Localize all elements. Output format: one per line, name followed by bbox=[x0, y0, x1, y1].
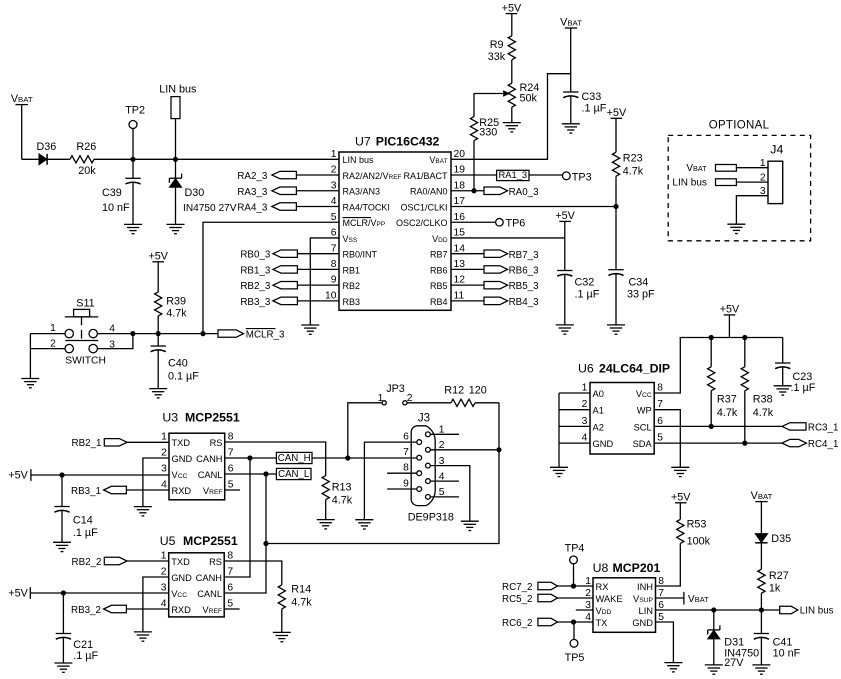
svg-text:0.1 µF: 0.1 µF bbox=[168, 371, 199, 383]
net RB6_3 flag bbox=[451, 266, 539, 277]
svg-text:1: 1 bbox=[760, 158, 766, 169]
power +5V bbox=[720, 304, 740, 338]
svg-text:3: 3 bbox=[161, 583, 167, 594]
svg-text:RC6_2: RC6_2 bbox=[502, 618, 533, 629]
net LIN bus flag bbox=[780, 606, 834, 617]
svg-text:100k: 100k bbox=[687, 536, 711, 548]
svg-text:19: 19 bbox=[454, 165, 466, 176]
wire bbox=[511, 107, 513, 122]
zener diode D30 bbox=[169, 159, 236, 224]
net RC6_2 flag bbox=[502, 618, 593, 629]
node bbox=[156, 332, 160, 336]
resistor R23 bbox=[612, 152, 643, 206]
svg-text:A2: A2 bbox=[593, 422, 604, 432]
svg-text:D36: D36 bbox=[36, 141, 56, 153]
wire U6 SDA bbox=[654, 442, 782, 444]
ground bbox=[671, 467, 689, 476]
ground bbox=[461, 521, 479, 530]
svg-text:RB3_2: RB3_2 bbox=[71, 605, 101, 616]
net RA2_3 flag bbox=[237, 171, 339, 182]
test point TP4 bbox=[565, 542, 585, 586]
svg-text:1: 1 bbox=[331, 149, 337, 160]
resistor R13 bbox=[322, 476, 353, 520]
IC U6 label bbox=[578, 361, 670, 375]
wire U6 Vcc bbox=[654, 338, 680, 394]
power VBAT bbox=[560, 17, 582, 92]
svg-text:R53: R53 bbox=[687, 519, 707, 531]
ground bbox=[134, 507, 152, 516]
svg-text:+5V: +5V bbox=[502, 2, 522, 14]
svg-text:RXD: RXD bbox=[171, 605, 191, 615]
net MCLR_3 flag bbox=[218, 329, 285, 341]
wire J3 pin2 bbox=[430, 449, 499, 451]
svg-text:RA4_3: RA4_3 bbox=[237, 202, 268, 213]
svg-text:R26: R26 bbox=[76, 141, 96, 153]
svg-text:RA2_3: RA2_3 bbox=[237, 171, 268, 182]
svg-text:U6: U6 bbox=[578, 361, 594, 375]
svg-text:MCLR_3: MCLR_3 bbox=[246, 330, 285, 341]
capacitor C34 bbox=[608, 206, 655, 324]
resistor R26 bbox=[70, 141, 96, 177]
svg-text:TP2: TP2 bbox=[125, 105, 145, 117]
svg-text:6: 6 bbox=[403, 432, 409, 443]
connector J4 body bbox=[768, 161, 783, 203]
svg-text:4: 4 bbox=[109, 323, 115, 334]
wire J3 pin3 bbox=[430, 466, 470, 522]
svg-text:1k: 1k bbox=[769, 583, 781, 595]
svg-text:4: 4 bbox=[331, 196, 337, 207]
svg-text:RB1_3: RB1_3 bbox=[240, 265, 271, 276]
IC U6 24LC64_DIP box bbox=[590, 383, 654, 455]
svg-text:120: 120 bbox=[469, 385, 487, 397]
svg-text:330: 330 bbox=[479, 126, 497, 138]
potentiometer R24 bbox=[508, 82, 539, 107]
wire bbox=[558, 393, 560, 467]
resistor R27 bbox=[758, 569, 789, 610]
wire U3 RS bbox=[225, 442, 326, 476]
IC U5 label bbox=[160, 534, 238, 548]
svg-text:3: 3 bbox=[582, 416, 588, 427]
connector J4 label bbox=[770, 143, 783, 157]
svg-text:JP3: JP3 bbox=[386, 383, 405, 395]
svg-text:10 nF: 10 nF bbox=[773, 647, 801, 659]
wire U6 A2 bbox=[559, 425, 590, 427]
ground bbox=[503, 123, 521, 132]
ground bbox=[21, 379, 39, 388]
net RA3_3 flag bbox=[237, 187, 339, 198]
net CAN_H box bbox=[276, 452, 312, 464]
wire J3 pin4 bbox=[430, 480, 459, 482]
svg-text:D35: D35 bbox=[771, 533, 791, 545]
svg-text:J4: J4 bbox=[770, 143, 783, 157]
resistor R39 bbox=[155, 292, 188, 334]
svg-text:.1 µF: .1 µF bbox=[73, 527, 98, 539]
wire switch pin1 bbox=[30, 333, 65, 335]
node bbox=[571, 620, 575, 624]
node LIN-bus junction bbox=[173, 157, 177, 161]
svg-text:7: 7 bbox=[331, 243, 337, 254]
svg-text:7: 7 bbox=[657, 399, 663, 410]
power +5V bbox=[8, 469, 169, 481]
svg-text:8: 8 bbox=[228, 432, 234, 443]
node bbox=[712, 608, 716, 612]
wire J3 pin9 bbox=[387, 488, 417, 490]
svg-text:D30: D30 bbox=[185, 187, 205, 199]
svg-text:14: 14 bbox=[454, 243, 466, 254]
IC U6 pin labels bbox=[582, 382, 664, 449]
power +5V bbox=[671, 492, 691, 520]
svg-text:+5V: +5V bbox=[8, 469, 28, 481]
svg-text:C32: C32 bbox=[575, 277, 595, 289]
svg-text:IN4750 27V: IN4750 27V bbox=[183, 203, 237, 214]
svg-text:1: 1 bbox=[50, 323, 56, 334]
IC U7 pin labels bbox=[325, 149, 465, 307]
net CAN_L box bbox=[276, 468, 311, 480]
svg-text:.1 µF: .1 µF bbox=[582, 103, 607, 115]
wire bbox=[94, 158, 339, 160]
node bbox=[60, 473, 64, 477]
svg-text:.1 µF: .1 µF bbox=[73, 650, 98, 662]
optional dashed box bbox=[668, 135, 810, 240]
op-amp U7 label bbox=[355, 134, 440, 148]
resistor R12 bbox=[444, 385, 486, 407]
svg-text:TP3: TP3 bbox=[572, 171, 592, 183]
svg-text:4: 4 bbox=[161, 480, 167, 491]
svg-text:2: 2 bbox=[161, 448, 167, 459]
ground bbox=[273, 632, 291, 641]
svg-text:VBAT: VBAT bbox=[686, 163, 707, 174]
svg-text:TXD: TXD bbox=[171, 557, 190, 567]
svg-text:LIN bus: LIN bus bbox=[800, 606, 834, 617]
svg-text:R13: R13 bbox=[332, 481, 352, 493]
wire U3 GND bbox=[143, 458, 169, 507]
IC U3 label bbox=[162, 410, 239, 424]
wire pin15 bbox=[451, 237, 565, 239]
ground bbox=[556, 325, 574, 334]
svg-text:4.7k: 4.7k bbox=[717, 407, 738, 419]
svg-text:1: 1 bbox=[161, 432, 167, 443]
diode D36 bbox=[36, 141, 56, 165]
svg-text:2: 2 bbox=[161, 567, 167, 578]
capacitor C40 bbox=[151, 334, 200, 389]
net RB3_2 flag bbox=[71, 605, 169, 616]
net VBAT box bbox=[686, 163, 736, 174]
svg-text:50k: 50k bbox=[520, 93, 538, 105]
svg-text:4: 4 bbox=[582, 433, 588, 444]
svg-text:5: 5 bbox=[657, 433, 663, 444]
diode D35 bbox=[755, 533, 791, 545]
svg-text:RA3_3: RA3_3 bbox=[237, 187, 268, 198]
svg-text:R27: R27 bbox=[769, 570, 789, 582]
svg-text:+5V: +5V bbox=[720, 304, 740, 316]
svg-text:LIN bus: LIN bus bbox=[343, 155, 375, 165]
svg-text:RXD: RXD bbox=[172, 486, 192, 496]
node TP2 junction bbox=[131, 157, 135, 161]
wire JP3 pin1 bbox=[348, 403, 382, 458]
svg-text:RB4_3: RB4_3 bbox=[509, 297, 540, 308]
svg-text:RB2: RB2 bbox=[343, 281, 361, 291]
svg-text:CANL: CANL bbox=[197, 589, 222, 599]
svg-text:RB2_1: RB2_1 bbox=[72, 438, 102, 449]
wire Vss bbox=[310, 238, 339, 325]
resistor R37 bbox=[708, 338, 738, 427]
svg-text:RA0/AN0: RA0/AN0 bbox=[410, 187, 448, 197]
svg-text:15: 15 bbox=[454, 228, 466, 239]
node bbox=[709, 335, 713, 339]
wire U8 LIN bbox=[656, 609, 780, 611]
svg-text:WAKE: WAKE bbox=[596, 594, 623, 604]
stub U8 VDD bbox=[576, 609, 593, 611]
svg-text:RB3_3: RB3_3 bbox=[240, 297, 271, 308]
ground bbox=[562, 124, 580, 133]
svg-text:CAN_L: CAN_L bbox=[278, 469, 310, 480]
svg-text:SWITCH: SWITCH bbox=[65, 356, 106, 367]
svg-text:RA0_3: RA0_3 bbox=[509, 187, 540, 198]
svg-text:20k: 20k bbox=[78, 165, 96, 177]
svg-text:13: 13 bbox=[454, 259, 466, 270]
wire pin20 VBAT bbox=[451, 74, 571, 160]
svg-text:U8: U8 bbox=[593, 561, 609, 575]
svg-text:RB7_3: RB7_3 bbox=[509, 250, 540, 261]
svg-text:RB2_2: RB2_2 bbox=[72, 557, 102, 568]
svg-text:R37: R37 bbox=[717, 394, 737, 406]
resistor R53 bbox=[677, 519, 711, 548]
IC U8 pin labels bbox=[585, 576, 664, 628]
node bbox=[131, 332, 135, 336]
wire bbox=[29, 334, 31, 379]
wire MCLR bbox=[203, 222, 339, 333]
wire U5 CANH link bbox=[224, 458, 250, 577]
svg-text:MCP201: MCP201 bbox=[613, 561, 661, 575]
connector J3 pins bbox=[403, 425, 445, 500]
svg-text:OSC1/CLKI: OSC1/CLKI bbox=[400, 202, 447, 212]
wire JP3 pin2 bbox=[407, 402, 451, 404]
ground bbox=[727, 224, 745, 233]
svg-text:8: 8 bbox=[331, 259, 337, 270]
node bbox=[472, 189, 476, 193]
wire U5 GND bbox=[143, 577, 169, 632]
zener diode D31 bbox=[708, 610, 759, 669]
power +5V bbox=[555, 210, 575, 238]
svg-text:VBAT: VBAT bbox=[11, 93, 33, 105]
IC U3 pin labels bbox=[161, 432, 234, 496]
svg-text:33 pF: 33 pF bbox=[627, 289, 655, 301]
connector J3 label bbox=[418, 413, 430, 425]
wire switch pin2 bbox=[30, 348, 65, 350]
connector J3 body bbox=[411, 426, 435, 506]
wire J3 pin6 bbox=[364, 442, 417, 520]
resistor R25 bbox=[470, 94, 499, 191]
svg-text:RB5_3: RB5_3 bbox=[509, 281, 540, 292]
power VBAT bbox=[751, 490, 773, 533]
capacitor C32 bbox=[557, 238, 600, 325]
wire +5V rail bbox=[680, 337, 783, 339]
ground bbox=[149, 389, 167, 398]
svg-text:+5V: +5V bbox=[555, 210, 575, 222]
wire U5 CANL link bbox=[224, 474, 266, 593]
svg-text:4.7k: 4.7k bbox=[753, 407, 774, 419]
wire U3 CANL bbox=[225, 473, 277, 475]
net RA1_3 box bbox=[451, 169, 529, 181]
ground bbox=[664, 663, 682, 672]
svg-text:R39: R39 bbox=[166, 295, 186, 307]
svg-text:MCP2551: MCP2551 bbox=[183, 534, 238, 548]
svg-text:27V: 27V bbox=[724, 657, 744, 669]
svg-text:9: 9 bbox=[331, 275, 337, 286]
wire CANH to J3 bbox=[312, 457, 417, 459]
power +5V bbox=[148, 251, 168, 292]
net RB5_3 flag bbox=[451, 281, 539, 292]
ground bbox=[54, 663, 72, 672]
svg-text:RA1/BACT: RA1/BACT bbox=[403, 171, 448, 181]
wire bbox=[760, 543, 762, 569]
stub U5 VREF bbox=[224, 608, 239, 610]
wire pin18 bbox=[451, 190, 484, 192]
svg-text:+5V: +5V bbox=[607, 107, 627, 119]
wire J4 pin1 bbox=[736, 158, 768, 169]
svg-text:6: 6 bbox=[227, 583, 233, 594]
test point TP5 bbox=[565, 622, 585, 664]
wire U5 RS bbox=[224, 561, 282, 585]
svg-text:RB6: RB6 bbox=[430, 265, 448, 275]
svg-text:INH: INH bbox=[637, 582, 653, 592]
resistor R38 bbox=[741, 338, 774, 444]
node bbox=[248, 456, 252, 460]
svg-text:CANH: CANH bbox=[196, 573, 222, 583]
svg-text:C34: C34 bbox=[629, 277, 649, 289]
svg-text:S11: S11 bbox=[76, 298, 94, 310]
svg-text:RB4: RB4 bbox=[430, 297, 448, 307]
svg-text:8: 8 bbox=[227, 551, 233, 562]
svg-text:WP: WP bbox=[637, 406, 652, 416]
svg-text:A1: A1 bbox=[593, 406, 604, 416]
svg-text:2: 2 bbox=[760, 172, 766, 183]
svg-text:U5: U5 bbox=[160, 534, 176, 548]
svg-text:U3: U3 bbox=[162, 410, 178, 424]
svg-text:RB2_3: RB2_3 bbox=[240, 281, 271, 292]
node bbox=[61, 591, 65, 595]
svg-text:+5V: +5V bbox=[671, 492, 691, 504]
svg-text:RC4_1: RC4_1 bbox=[808, 439, 839, 450]
net RC7_2 flag bbox=[502, 582, 593, 593]
svg-text:GND: GND bbox=[171, 573, 192, 583]
svg-text:RA4/TOCKI: RA4/TOCKI bbox=[343, 202, 390, 212]
wire U6 SCL bbox=[654, 425, 782, 427]
ground bbox=[301, 325, 319, 334]
net RA4_3 flag bbox=[237, 202, 339, 213]
svg-text:J3: J3 bbox=[418, 413, 430, 425]
resistor R9 bbox=[488, 36, 516, 63]
capacitor C41 bbox=[754, 610, 801, 665]
wire bbox=[47, 158, 70, 160]
node bbox=[201, 332, 205, 336]
svg-text:8: 8 bbox=[657, 382, 663, 393]
stub U3 VREF bbox=[225, 489, 240, 491]
svg-text:RB0_3: RB0_3 bbox=[240, 250, 271, 261]
svg-text:R12: R12 bbox=[444, 385, 464, 397]
svg-text:10 nF: 10 nF bbox=[102, 202, 130, 214]
net RC3_1 flag bbox=[782, 422, 838, 433]
net RC5_2 flag bbox=[502, 594, 593, 605]
capacitor C39 bbox=[102, 159, 141, 224]
svg-text:7: 7 bbox=[227, 567, 233, 578]
svg-text:RB6_3: RB6_3 bbox=[509, 266, 540, 277]
ground bbox=[705, 665, 723, 674]
capacitor C23 bbox=[775, 338, 816, 394]
svg-text:VBAT: VBAT bbox=[560, 17, 582, 29]
wire U3 CANH bbox=[225, 457, 277, 459]
svg-text:+5V: +5V bbox=[8, 588, 28, 600]
svg-text:C33: C33 bbox=[582, 91, 602, 103]
svg-text:.1 µF: .1 µF bbox=[791, 382, 816, 394]
wire U6 WP bbox=[654, 410, 680, 468]
svg-text:17: 17 bbox=[454, 196, 466, 207]
svg-text:4.7k: 4.7k bbox=[291, 597, 312, 609]
svg-text:CANL: CANL bbox=[198, 470, 223, 480]
node bbox=[709, 424, 713, 428]
svg-text:R14: R14 bbox=[291, 583, 311, 595]
svg-text:PIC16C432: PIC16C432 bbox=[376, 134, 440, 148]
svg-text:A0: A0 bbox=[593, 389, 604, 399]
svg-text:OPTIONAL: OPTIONAL bbox=[709, 120, 770, 132]
svg-text:5: 5 bbox=[228, 480, 234, 491]
node bbox=[571, 584, 575, 588]
svg-text:RC7_2: RC7_2 bbox=[502, 582, 533, 593]
wire U6 GND bbox=[559, 442, 590, 444]
capacitor C14 bbox=[54, 475, 98, 542]
node bbox=[743, 441, 747, 445]
svg-text:GND: GND bbox=[172, 454, 193, 464]
node bbox=[264, 472, 268, 476]
svg-text:10: 10 bbox=[325, 290, 337, 301]
wiper arrow R24 bbox=[474, 91, 509, 96]
svg-text:RB3: RB3 bbox=[343, 297, 361, 307]
svg-text:1: 1 bbox=[582, 382, 588, 393]
ground bbox=[752, 665, 770, 674]
svg-text:3: 3 bbox=[331, 180, 337, 191]
svg-text:SDA: SDA bbox=[633, 439, 653, 449]
ground bbox=[53, 542, 71, 551]
svg-text:MCP2551: MCP2551 bbox=[185, 410, 240, 424]
net RC4_1 flag bbox=[782, 439, 838, 450]
IC U8 label bbox=[593, 561, 661, 575]
svg-text:2: 2 bbox=[582, 399, 588, 410]
wire bbox=[22, 158, 39, 160]
svg-text:RA1_3: RA1_3 bbox=[498, 169, 527, 180]
svg-text:TP6: TP6 bbox=[506, 218, 526, 230]
label OPTIONAL bbox=[709, 120, 770, 132]
svg-text:6: 6 bbox=[228, 464, 234, 475]
svg-text:6: 6 bbox=[657, 416, 663, 427]
wire U6 A1 bbox=[559, 409, 590, 411]
node bbox=[759, 608, 763, 612]
svg-text:5: 5 bbox=[227, 599, 233, 610]
capacitor C21 bbox=[56, 593, 99, 663]
svg-text:RS: RS bbox=[210, 438, 223, 448]
wire J3 pin1 bbox=[430, 433, 459, 435]
ground bbox=[134, 632, 152, 641]
svg-text:TP4: TP4 bbox=[565, 542, 585, 554]
svg-text:4: 4 bbox=[161, 599, 167, 610]
svg-text:RB3_1: RB3_1 bbox=[71, 486, 101, 497]
svg-text:24LC64_DIP: 24LC64_DIP bbox=[599, 361, 670, 375]
svg-text:1: 1 bbox=[161, 551, 167, 562]
wire bbox=[511, 60, 513, 83]
svg-text:TP5: TP5 bbox=[565, 652, 585, 664]
IC U5 pin labels bbox=[161, 551, 234, 615]
net RB7_3 flag bbox=[451, 250, 539, 261]
resistor R14 bbox=[278, 583, 312, 632]
